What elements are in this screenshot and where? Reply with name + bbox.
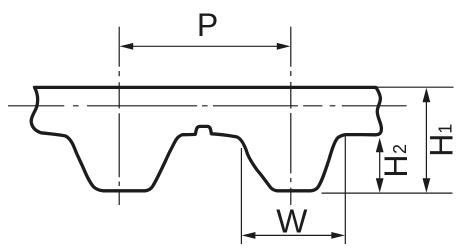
dimension H1: bottom arrowhead xyxy=(423,178,431,193)
dimension W: right arrowhead xyxy=(331,232,345,239)
tooth 2 centerline (vertical dash-dot) xyxy=(290,71,292,205)
tooth 1 centerline (vertical dash-dot) xyxy=(118,71,120,205)
extension line from tooth bottom (for H1/H2) xyxy=(322,192,452,194)
dimension W: left arrowhead xyxy=(242,232,256,239)
svg-text:P: P xyxy=(197,7,218,43)
dimension P: right extension tick xyxy=(290,27,292,66)
dimension P: left arrowhead xyxy=(120,43,134,50)
dimension W: right extension line xyxy=(344,137,346,244)
dimension P: right arrowhead xyxy=(277,43,291,50)
extension line from belt top (for H1) xyxy=(378,86,453,88)
svg-text:H2: H2 xyxy=(378,144,414,178)
dimension H1: top arrowhead xyxy=(423,88,431,103)
pitch line (horizontal dash-dot) xyxy=(8,105,407,107)
dimension H2: top arrowhead xyxy=(376,138,384,153)
dimension H2: bottom arrowhead xyxy=(376,178,384,193)
belt profile outline xyxy=(31,87,381,190)
svg-text:W: W xyxy=(276,203,308,240)
dimension P: dimension line xyxy=(131,45,279,47)
dimension W: left extension line xyxy=(240,149,242,244)
dimension H1: dimension line xyxy=(425,100,427,180)
dimension H2: dimension line xyxy=(379,150,381,180)
dimension W: dimension line xyxy=(254,234,333,236)
dimension P: left extension tick xyxy=(118,27,120,66)
svg-text:H1: H1 xyxy=(424,124,460,157)
